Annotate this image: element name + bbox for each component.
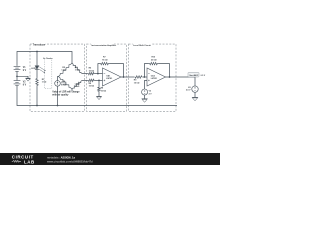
svg-text:9 V: 9 V xyxy=(23,84,27,86)
wire V3 to ground xyxy=(144,95,146,99)
svg-text:10 kΩ: 10 kΩ xyxy=(89,86,95,88)
ground supply midpoint xyxy=(25,78,30,81)
svg-text:0-5 V: 0-5 V xyxy=(201,75,206,77)
svg-text:2.5 V: 2.5 V xyxy=(186,90,191,92)
section box Level Shift Circuit xyxy=(129,43,177,111)
wire LED branch xyxy=(36,52,38,66)
resistor R2 bridge NW xyxy=(59,63,73,77)
air chamber dashed box xyxy=(43,57,55,89)
node LED branch top xyxy=(36,51,38,53)
wire plus input to offset source xyxy=(145,80,147,89)
wire V4 to ground xyxy=(194,92,196,97)
wire source to bottom rail xyxy=(57,86,59,105)
svg-text:metadata : ASSIGN_1a: metadata : ASSIGN_1a xyxy=(47,156,75,160)
svg-text:10 kΩ: 10 kΩ xyxy=(89,70,95,72)
wire plus input down xyxy=(98,80,100,86)
resistor R10 feedback xyxy=(149,57,159,65)
wire R8 to ground xyxy=(98,92,100,96)
svg-text:LED1: LED1 xyxy=(31,68,37,70)
svg-text:10 kΩ: 10 kΩ xyxy=(101,90,107,92)
wire feedback up OA1 xyxy=(98,64,100,74)
resistor R3 bridge NE xyxy=(72,63,82,74)
wire bridge bottom stub xyxy=(71,89,73,91)
annotation LDR note xyxy=(52,92,80,97)
wire OA2 output to Vout xyxy=(166,76,196,78)
resistor LDR1 bridge SE xyxy=(72,80,82,89)
wire feedback up OA2 xyxy=(144,64,148,77)
svg-text:1 kΩ: 1 kΩ xyxy=(75,70,80,72)
svg-text:LM741: LM741 xyxy=(151,77,158,80)
svg-text:www.circuitlab.com/c/9f98825/l: www.circuitlab.com/c/9f98825/lab47d xyxy=(47,159,93,163)
label box Vout xyxy=(188,72,206,77)
voltage source V4 xyxy=(186,86,198,92)
node output junction OA2 xyxy=(169,76,171,78)
wire Vout down to V4 xyxy=(194,77,196,86)
svg-text:1 mA: 1 mA xyxy=(61,84,66,87)
svg-text:LAB: LAB xyxy=(24,159,35,164)
wire LED to R1 xyxy=(36,69,38,77)
svg-text:Level Shift Circuit: Level Shift Circuit xyxy=(133,44,151,47)
section box Instrumentation Amplifier xyxy=(87,43,127,111)
wire R1 to bottom rail xyxy=(36,87,38,106)
resistor R7 feedback xyxy=(100,57,110,65)
node LED branch bottom xyxy=(36,105,38,107)
ground OA1 xyxy=(96,96,102,99)
wire between batteries xyxy=(16,72,18,81)
node feedback tap OA1 xyxy=(97,73,99,75)
svg-text:75 kΩ: 75 kΩ xyxy=(102,59,108,61)
wire midpoint to ground xyxy=(17,76,28,78)
svg-text:Transducer: Transducer xyxy=(33,44,46,47)
resistor R5 xyxy=(88,68,96,75)
svg-text:Vout ADC: Vout ADC xyxy=(189,74,199,77)
wire bridge to inamp top xyxy=(82,73,88,75)
wire feedback to output OA1 xyxy=(110,64,124,77)
wire R5 to opamp xyxy=(95,73,103,75)
node ground tap OA1 plus xyxy=(98,80,100,82)
node source rail junction xyxy=(57,105,59,107)
svg-text:20 kΩ: 20 kΩ xyxy=(151,59,157,61)
svg-text:Value of LDR will change: Value of LDR will change xyxy=(52,92,80,94)
node feedback tap OA2 xyxy=(144,76,146,78)
ground V4 xyxy=(192,97,198,101)
voltage source V3 xyxy=(142,89,153,95)
resistor R1 xyxy=(36,78,47,87)
resistor R9 xyxy=(134,76,143,85)
wire R6 to opamp xyxy=(95,79,103,81)
resistor R4 bridge SW xyxy=(59,77,73,90)
wire bridge left vertex to source xyxy=(58,77,59,81)
svg-text:OA2: OA2 xyxy=(151,74,155,77)
battery V1 xyxy=(14,67,27,73)
svg-text:with air quality: with air quality xyxy=(52,94,69,97)
ground V3 xyxy=(142,99,148,103)
svg-text:10 kΩ: 10 kΩ xyxy=(134,82,140,84)
wire battery bottom to bottom rail xyxy=(17,86,177,106)
section box Transducer xyxy=(30,43,85,111)
node output junction OA1 xyxy=(123,76,125,78)
footer bar xyxy=(0,153,220,165)
svg-text:Instrumentation Amplifier: Instrumentation Amplifier xyxy=(91,44,116,47)
svg-text:LM741: LM741 xyxy=(106,77,113,80)
wire feedback to output OA2 xyxy=(159,64,170,77)
wire OA1 output to box3 xyxy=(121,76,134,78)
op-amp OA2 xyxy=(147,68,166,86)
svg-text:9 V: 9 V xyxy=(23,70,27,72)
resistor R6 xyxy=(88,79,96,87)
resistor R8 xyxy=(98,87,107,93)
battery V2 xyxy=(14,81,27,87)
svg-text:1 kΩ: 1 kΩ xyxy=(61,70,66,72)
svg-text:1 kΩ: 1 kΩ xyxy=(75,86,80,88)
op-amp OA1 xyxy=(103,68,122,86)
wire bridge to inamp bottom xyxy=(82,79,88,81)
LED LED1 xyxy=(31,66,46,74)
wire left supply vertical and top rail xyxy=(17,52,72,66)
current source I1 xyxy=(55,81,67,87)
node midpoint junction xyxy=(16,75,18,77)
svg-text:LDR1: LDR1 xyxy=(75,83,81,85)
wire R9 to OA2 xyxy=(143,76,147,78)
